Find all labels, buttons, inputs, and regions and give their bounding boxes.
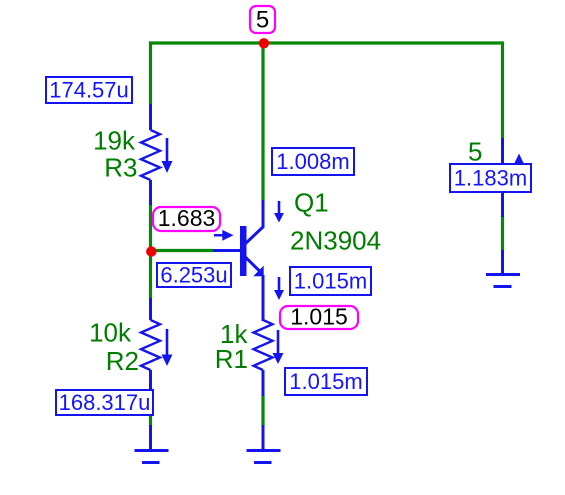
emitter wire down [262, 275, 265, 321]
wire top rail from R3 top to battery top [151, 43, 503, 138]
svg-text:1.008m: 1.008m [276, 149, 349, 174]
resistor R3 [141, 104, 160, 205]
resistor R2 [141, 298, 160, 396]
transistor Q1 [213, 200, 264, 321]
wire below R1 to ground [261, 395, 264, 426]
svg-text:10k: 10k [89, 318, 132, 348]
svg-text:1.015: 1.015 [290, 304, 348, 330]
svg-text:5: 5 [468, 137, 482, 167]
ground left [135, 425, 169, 463]
resistor R1 [254, 276, 273, 396]
junction node dot base [146, 246, 156, 256]
current box 174.57u [46, 77, 132, 103]
current box 1.015m R1 [285, 368, 367, 395]
node voltage 1.683 [153, 205, 220, 231]
wire below battery to ground [501, 216, 504, 251]
svg-text:2N3904: 2N3904 [290, 226, 381, 256]
wire left mid between R3 and R2 [149, 204, 152, 299]
svg-text:19k: 19k [93, 126, 136, 156]
collector lead [246, 200, 264, 244]
svg-text:6.253u: 6.253u [160, 263, 227, 288]
svg-text:1.683: 1.683 [158, 205, 216, 231]
svg-text:1.183m: 1.183m [454, 166, 527, 191]
svg-text:5: 5 [256, 7, 269, 34]
battery current arrow up [514, 154, 524, 165]
svg-text:168.317u: 168.317u [59, 390, 151, 415]
svg-text:1.015m: 1.015m [294, 269, 367, 294]
ground right [486, 250, 520, 287]
emitter current arrow [274, 277, 284, 300]
svg-text:R3: R3 [104, 153, 137, 183]
svg-text:R1: R1 [215, 344, 248, 374]
wire below R2 to ground [149, 395, 152, 426]
base current arrow [214, 230, 234, 241]
R3 current arrow [162, 138, 173, 173]
junction node dot top [259, 38, 269, 48]
svg-text:174.57u: 174.57u [49, 78, 129, 103]
emitter arrowhead [253, 266, 264, 277]
base lead [213, 249, 240, 252]
current box 1.015m emitter [290, 267, 371, 295]
ground middle [247, 425, 281, 463]
node voltage 1.015 [280, 304, 358, 330]
base bar [240, 226, 247, 276]
current box 168.317u [56, 390, 153, 415]
battery V1 lead [501, 138, 504, 217]
svg-text:R2: R2 [106, 346, 139, 376]
current box 1.008m [272, 148, 354, 175]
wire base from junction to transistor [151, 249, 214, 252]
svg-text:1.015m: 1.015m [289, 369, 362, 394]
emitter lead [246, 258, 260, 272]
R2 current arrow [162, 329, 173, 366]
svg-text:Q1: Q1 [294, 188, 329, 218]
current box 6.253u [157, 263, 231, 288]
wire collector drop from top rail [261, 43, 264, 201]
collector current arrow [274, 201, 284, 223]
current box 1.183m [450, 164, 531, 192]
R1 current arrow [273, 330, 284, 364]
node label 5 top [250, 6, 275, 34]
